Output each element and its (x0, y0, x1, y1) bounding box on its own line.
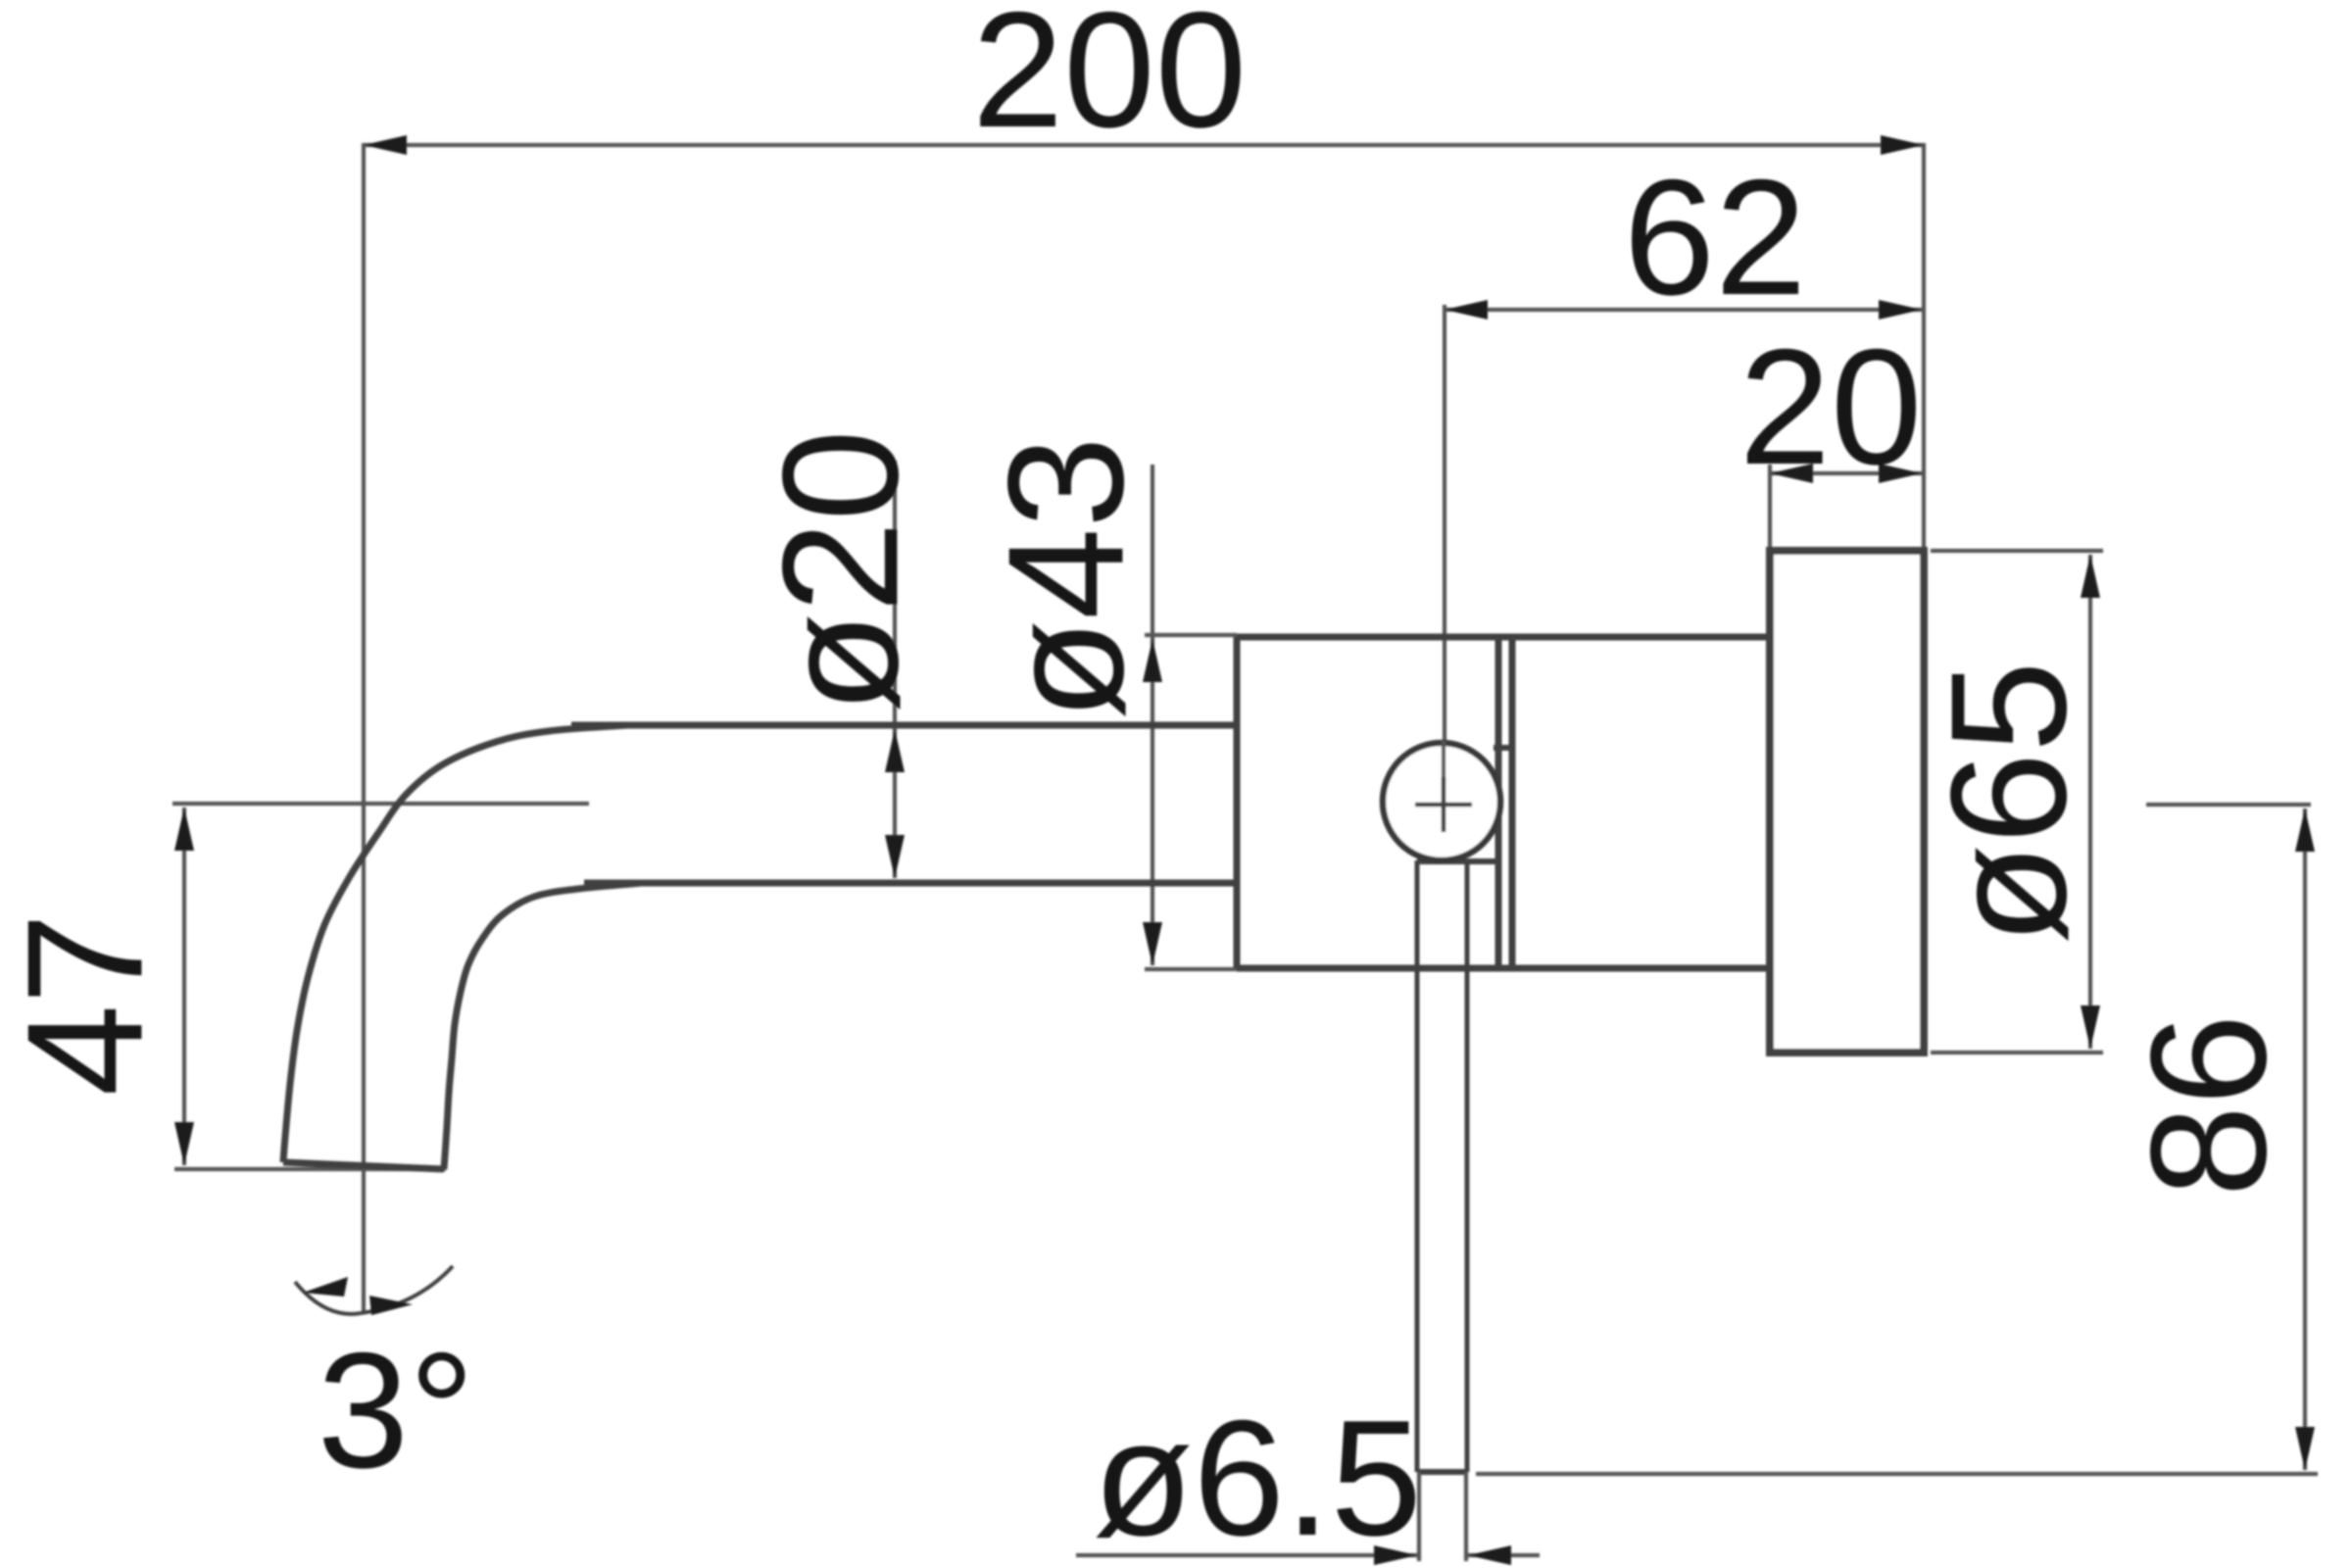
dimension line 86 (2303, 808, 2307, 1470)
lever bottom cap (1417, 1469, 1467, 1475)
lever left edge (1415, 860, 1420, 1472)
dimension line dia6.5 right part (1468, 1553, 1540, 1557)
svg-text:20: 20 (1739, 315, 1923, 499)
extension line dia43 top (1145, 633, 1237, 637)
arrow 86 down (2295, 1427, 2315, 1470)
svg-text:200: 200 (972, 0, 1247, 162)
spout outer curve (283, 725, 627, 1162)
dimension line dia6.5 left part (1076, 1553, 1417, 1557)
arrow 200 right (1881, 135, 1924, 155)
extension line dia6.5 right (1464, 1472, 1468, 1561)
wall flange outline (1770, 551, 1924, 1053)
handle centerline inside pivot circle (1442, 741, 1445, 780)
extension line left of 200 dim (also 3-deg reference) (362, 143, 366, 1311)
arrow 62 left (1445, 300, 1488, 319)
dimension line dia43 (body) (1151, 465, 1154, 965)
spout tube top edge (571, 722, 1237, 729)
arrow dia6.5 right (1468, 1545, 1511, 1565)
arrow dia43 down (1143, 922, 1162, 965)
extension line 86 bottom (1476, 1472, 2318, 1476)
body left edge (1234, 637, 1241, 968)
arrow dia65 down (2081, 1005, 2100, 1049)
body top edge (1237, 634, 1770, 641)
extension line left of 20 dim (1768, 465, 1772, 551)
extension line dia43 bottom (1145, 967, 1237, 971)
3 degree arrow left (303, 1277, 348, 1297)
arrow dia6.5 left (1374, 1545, 1417, 1565)
body junction line 2 (1509, 637, 1516, 968)
3 degree arc right part (361, 1266, 453, 1313)
pivot cross horizontal (1415, 803, 1472, 808)
lever right edge (1465, 860, 1470, 1472)
arrow 62 right (1879, 300, 1922, 319)
pivot circle (1383, 743, 1500, 860)
extension line left of 62 dim (handle centerline) (1443, 305, 1446, 828)
extension line right of 200/62 dims (1922, 143, 1926, 551)
svg-text:62: 62 (1624, 145, 1807, 329)
extension line 47 top (172, 802, 589, 806)
arrow 20 right (1879, 464, 1922, 483)
spout tube bottom edge (584, 880, 1237, 887)
svg-text:86: 86 (2116, 1014, 2300, 1198)
svg-text:ø43: ø43 (973, 436, 1157, 720)
extension line 86 top (2146, 803, 2311, 807)
lever mount top segment (1494, 745, 1512, 751)
extension line dia65 top (1931, 549, 2103, 553)
arrow dia20 down (885, 835, 905, 878)
dimension line 47 (182, 808, 186, 1165)
extension line dia65 bottom (1931, 1051, 2103, 1054)
svg-text:47: 47 (0, 913, 176, 1097)
spout outlet bottom edge (283, 1162, 444, 1169)
dimension line 200 (364, 143, 1924, 147)
spout inner curve (444, 883, 642, 1169)
lever mount bottom segment (1417, 858, 1498, 864)
3 degree arrow right (369, 1296, 413, 1315)
body junction line 1 (1495, 637, 1502, 968)
arrow 86 up (2295, 808, 2315, 852)
pivot cross vertical (1442, 777, 1446, 832)
body bottom edge (1237, 965, 1770, 972)
extension line dia6.5 left (1417, 1472, 1421, 1561)
svg-text:ø6.5: ø6.5 (1093, 1386, 1422, 1568)
extension line 47 bottom (174, 1167, 446, 1171)
svg-text:ø65: ø65 (1916, 661, 2100, 945)
dimension line dia65 (2088, 555, 2092, 1049)
arrow dia65 up (2081, 555, 2100, 598)
arrow dia43 up (1143, 639, 1162, 682)
arrow dia20 up (885, 729, 905, 772)
arrow 47 down (174, 1122, 194, 1165)
dimension line 20 (1770, 471, 1922, 475)
arrow 20 left (1770, 464, 1813, 483)
arrow 200 left (364, 135, 407, 155)
dimension line dia20 (spout tube) (893, 461, 897, 878)
arrow 47 up (174, 808, 194, 851)
dimension line 62 (1445, 308, 1922, 312)
svg-text:ø20: ø20 (748, 429, 932, 713)
3 degree arc left part (295, 1282, 361, 1314)
svg-text:3°: 3° (318, 1318, 475, 1502)
